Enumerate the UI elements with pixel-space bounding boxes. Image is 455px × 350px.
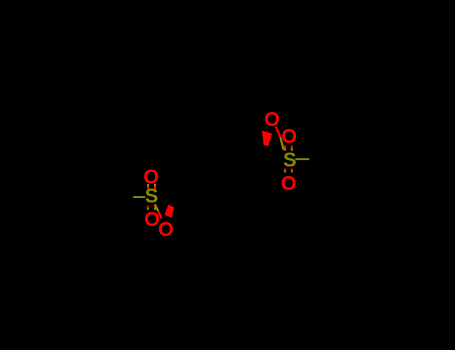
- svg-text:O: O: [143, 166, 159, 188]
- wire S-O ester single bond (olive half): [155, 204, 158, 211]
- svg-text:O: O: [158, 219, 174, 241]
- wire CH3-S bond (left methyl): [133, 196, 145, 198]
- wire O-S ester single bond (olive half): [280, 137, 283, 150]
- wedge bond O to ring carbon (left stereo wedge): [165, 205, 175, 218]
- wire S-O ester single bond (red half): [158, 211, 161, 219]
- svg-text:S: S: [145, 186, 158, 208]
- wire S=O bottom double bond dash left: [147, 206, 149, 210]
- svg-text:O: O: [281, 173, 297, 195]
- wedge bond O to ring carbon (right stereo wedge): [262, 131, 272, 147]
- svg-text:O: O: [281, 126, 297, 148]
- wire S=O mid double bond dash right: [291, 146, 293, 151]
- left mesylate group: [133, 166, 174, 241]
- svg-text:S: S: [283, 150, 296, 172]
- wire O-S ester single bond (red half): [276, 127, 281, 138]
- wire S=O bottom double bond dash right: [154, 206, 156, 210]
- wire CH3-S bond (right methyl): [295, 158, 309, 160]
- wire S=O bottom double bond dash right: [291, 169, 293, 173]
- right mesylate group: [262, 109, 309, 195]
- wire S=O mid double bond dash left: [284, 146, 286, 151]
- wire S=O bottom double bond dash left: [284, 169, 286, 173]
- wire S=O top double bond dash left: [147, 184, 149, 189]
- wire S=O top double bond dash right: [154, 184, 156, 189]
